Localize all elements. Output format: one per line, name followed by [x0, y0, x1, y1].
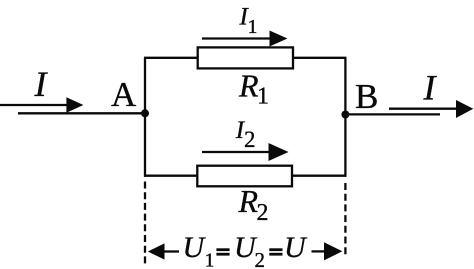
current arrowhead I output: [456, 100, 473, 118]
svg-text:B: B: [355, 77, 378, 116]
svg-text:2: 2: [244, 127, 256, 152]
current arrowhead I2: [269, 143, 289, 161]
current arrowhead I input: [66, 97, 83, 113]
svg-text:I: I: [34, 64, 49, 104]
voltage arrow shaft left: [163, 250, 179, 252]
svg-text:1: 1: [257, 83, 269, 109]
wire I2 current-arrow shaft: [202, 151, 272, 153]
wire bottom branch right: [291, 175, 346, 177]
svg-text:1: 1: [205, 249, 215, 269]
svg-text:R: R: [238, 68, 259, 104]
svg-text:U: U: [183, 231, 207, 264]
dashed extension line from A: [144, 182, 146, 267]
svg-text:U: U: [284, 231, 308, 264]
voltage arrowhead right (points to B extension): [324, 242, 342, 260]
wire right current-arrow shaft: [389, 108, 458, 110]
node A junction dot: [141, 109, 149, 117]
equals sign 1: [216, 248, 229, 255]
voltage arrow shaft right: [312, 250, 326, 252]
wire node B to output: [344, 113, 440, 115]
voltage arrowhead left (points to A extension): [148, 243, 165, 259]
svg-text:1: 1: [248, 16, 258, 38]
wire left current-arrow shaft: [0, 104, 70, 106]
svg-text:2: 2: [257, 200, 269, 226]
wire right vertical branch: [344, 58, 346, 177]
equals sign 2: [269, 248, 282, 255]
dashed extension line from B: [344, 183, 346, 256]
svg-text:R: R: [238, 183, 259, 219]
wire input to node A: [18, 112, 146, 114]
svg-text:A: A: [111, 75, 137, 114]
wire I1 current-arrow shaft: [202, 37, 273, 39]
resistor R2: [197, 166, 292, 187]
wire left vertical branch: [144, 58, 146, 177]
node B junction dot: [341, 111, 349, 119]
wire bottom branch left: [144, 175, 199, 177]
resistor R1: [198, 47, 293, 68]
svg-text:2: 2: [255, 248, 266, 269]
wire top branch left: [144, 57, 199, 59]
svg-text:I: I: [423, 68, 438, 108]
wire top branch right: [292, 57, 346, 59]
current arrowhead I1: [270, 31, 288, 47]
